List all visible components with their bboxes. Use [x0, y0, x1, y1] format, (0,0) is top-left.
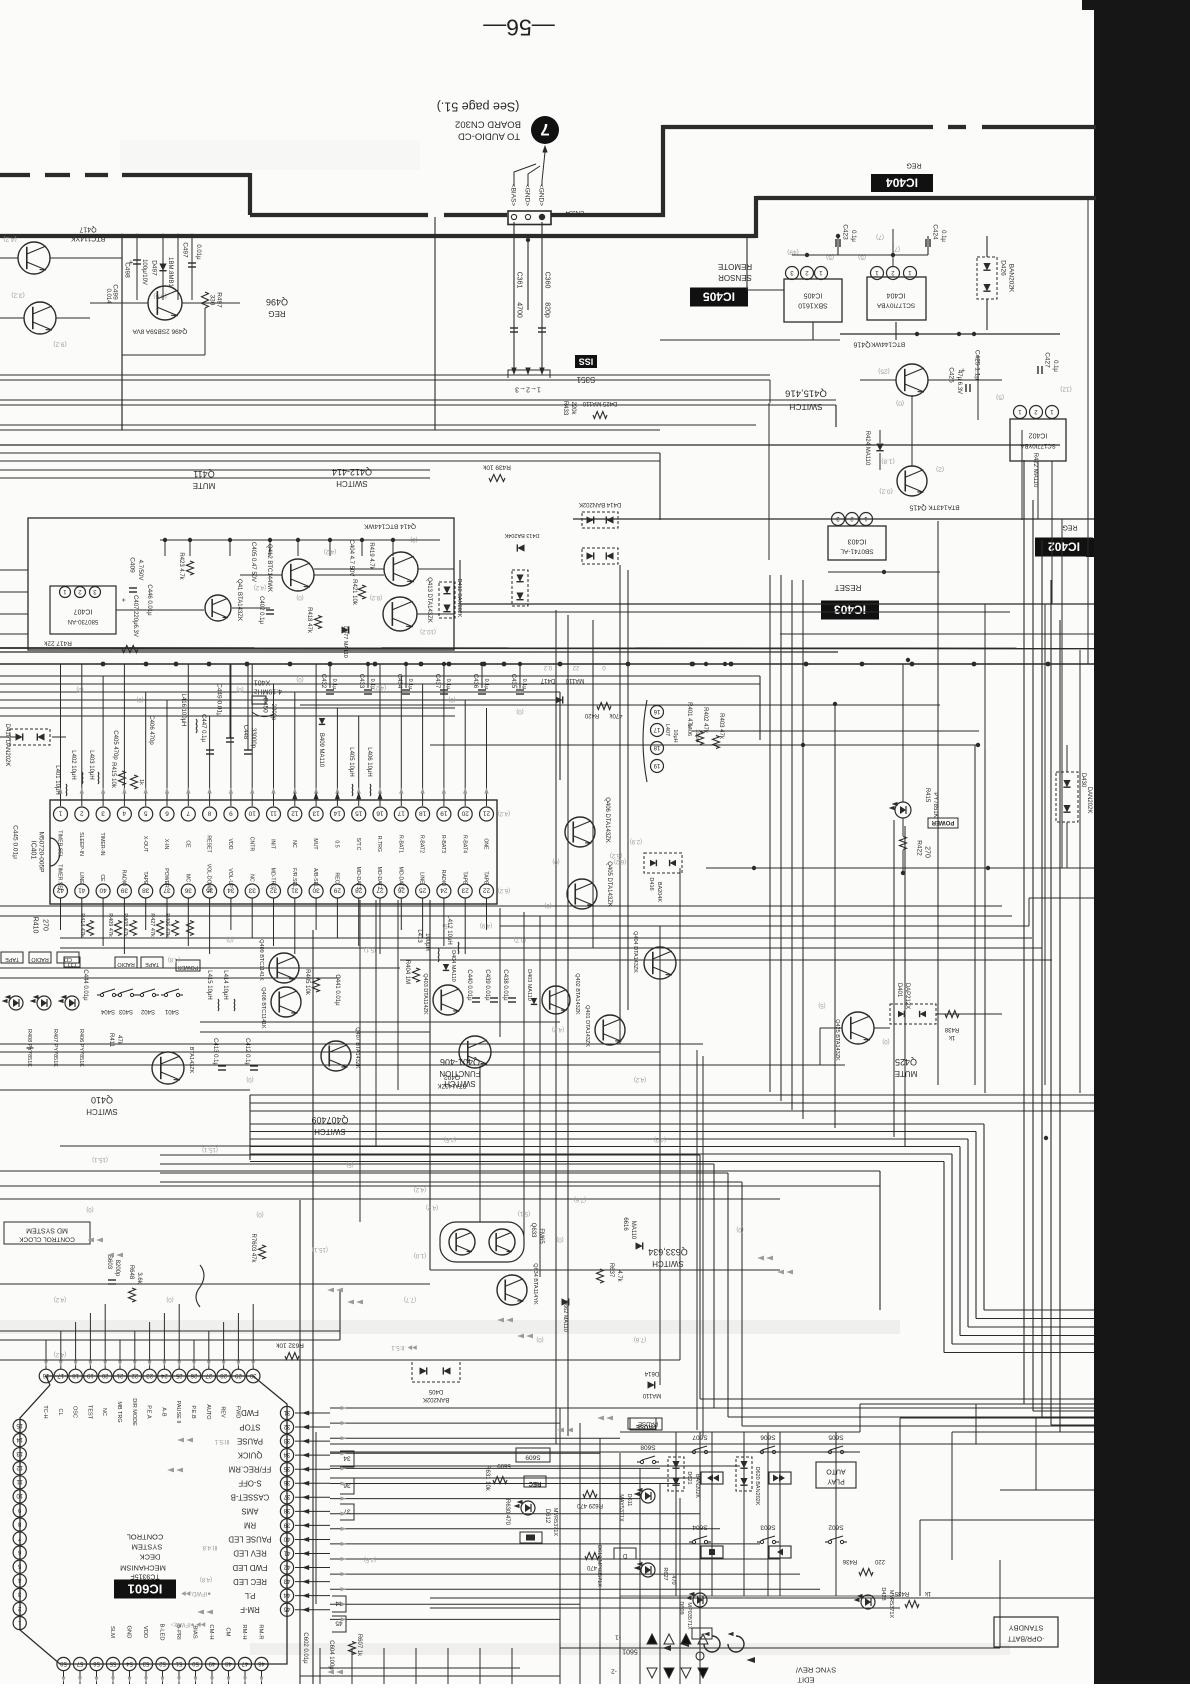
svg-text:C405 0.47 50V: C405 0.47 50V: [250, 542, 256, 582]
svg-text:R404 1M: R404 1M: [404, 960, 410, 984]
svg-text:25: 25: [419, 887, 427, 894]
svg-text:(4.2): (4.2): [54, 1351, 66, 1357]
svg-text:STOP: STOP: [239, 1422, 260, 1431]
svg-text:L406 10μH: L406 10μH: [366, 747, 372, 776]
svg-text:MUTE: MUTE: [193, 481, 216, 490]
svg-text:(0.2): (0.2): [879, 488, 892, 495]
svg-text:D413 BA204K: D413 BA204K: [504, 532, 539, 538]
svg-text:(15.1): (15.1): [92, 1156, 108, 1162]
svg-text:TIMER-IN: TIMER-IN: [99, 832, 105, 855]
svg-text:15: 15: [355, 810, 363, 817]
svg-text:C434: C434: [396, 674, 402, 689]
svg-text:(0): (0): [882, 1038, 889, 1044]
svg-text:(25): (25): [878, 368, 890, 375]
svg-text:470k: 470k: [608, 712, 622, 718]
svg-text:(5): (5): [996, 394, 1004, 401]
svg-text:7: 7: [540, 120, 549, 139]
svg-text:MD-DAT3: MD-DAT3: [355, 867, 361, 890]
svg-text:4.7k: 4.7k: [616, 1270, 622, 1282]
svg-text:D403 MA110: D403 MA110: [526, 969, 532, 1001]
svg-text:BTC114YK: BTC114YK: [70, 234, 105, 241]
svg-text:Q41 BTA143ZK: Q41 BTA143ZK: [236, 579, 242, 621]
svg-text:R421 10k: R421 10k: [351, 579, 357, 606]
svg-text:D611: D611: [626, 1494, 632, 1507]
svg-text:RM: RM: [244, 1521, 256, 1530]
svg-text:36: 36: [283, 1479, 290, 1485]
svg-text:FWD: FWD: [241, 1408, 259, 1417]
svg-text:(4.2): (4.2): [654, 1136, 666, 1142]
svg-text:47k: 47k: [116, 1035, 122, 1046]
svg-text:R407 PY7851K: R407 PY7851K: [52, 1029, 58, 1067]
svg-text:MC: MC: [184, 874, 190, 882]
svg-text:-2: -2: [611, 1668, 617, 1675]
svg-text:D477 MA110: D477 MA110: [342, 626, 348, 658]
svg-text:D662 MA110: D662 MA110: [562, 1300, 568, 1332]
svg-text:-1: -1: [615, 1634, 621, 1641]
svg-text:C413 0.1μ: C413 0.1μ: [212, 1038, 218, 1066]
svg-text:REG: REG: [906, 161, 921, 168]
svg-text:49: 49: [208, 1660, 215, 1666]
svg-text:25: 25: [175, 1372, 182, 1378]
svg-text:TAPE: TAPE: [5, 956, 19, 962]
svg-text:C406 470p: C406 470p: [148, 715, 154, 745]
svg-text:39: 39: [283, 1521, 290, 1527]
svg-text:R401 47k: R401 47k: [686, 702, 692, 729]
svg-text:RADIO: RADIO: [440, 870, 446, 886]
svg-text:CM-H: CM-H: [208, 1624, 214, 1639]
svg-text:L405 10μH: L405 10μH: [348, 747, 354, 776]
svg-text:R427 47k: R427 47k: [149, 913, 155, 937]
svg-text:(4.5): (4.5): [444, 1136, 456, 1142]
svg-text:33: 33: [248, 887, 256, 894]
svg-text:NC: NC: [248, 874, 254, 882]
svg-text:REV LED: REV LED: [233, 1549, 267, 1558]
svg-text:C427: C427: [1044, 352, 1051, 368]
svg-text:Q411: Q411: [193, 469, 214, 479]
svg-text:54: 54: [126, 1660, 133, 1666]
svg-text:RESET: RESET: [835, 583, 862, 592]
svg-text:X-OUT: X-OUT: [142, 836, 148, 853]
svg-text:C444 0.01μ: C444 0.01μ: [82, 969, 88, 1001]
svg-text:RADIO: RADIO: [117, 961, 135, 967]
svg-text:C437: C437: [434, 674, 440, 689]
svg-text:BIAS: BIAS: [191, 1625, 197, 1638]
svg-text:MD-DAT2: MD-DAT2: [376, 867, 382, 890]
svg-text:47: 47: [241, 1660, 248, 1666]
svg-text:FWD: FWD: [234, 1406, 240, 1419]
svg-text:X401: X401: [254, 678, 270, 685]
svg-text:REC: REC: [528, 1480, 541, 1486]
svg-text:Q407409: Q407409: [311, 1115, 348, 1125]
svg-text:D620 BAN202K: D620 BAN202K: [754, 1467, 760, 1506]
svg-text:R402 47k: R402 47k: [702, 707, 708, 734]
svg-text:C361: C361: [515, 272, 522, 289]
svg-text:SC177I0YBA: SC177I0YBA: [876, 302, 915, 309]
svg-text:R630 470: R630 470: [504, 1499, 510, 1526]
svg-text:P.E.A: P.E.A: [146, 1405, 152, 1419]
svg-text:R423 4.7k: R423 4.7k: [178, 552, 184, 580]
svg-text:4.7/50V: 4.7/50V: [137, 560, 143, 581]
svg-text:Q404 DTA143ZK: Q404 DTA143ZK: [632, 931, 638, 973]
svg-text:2200p: 2200p: [270, 704, 276, 721]
svg-text:CD: CD: [68, 961, 76, 967]
svg-text:21: 21: [483, 810, 491, 817]
svg-text:DIR MODE: DIR MODE: [131, 1398, 137, 1426]
svg-text:L416 100μH: L416 100μH: [180, 694, 186, 727]
svg-text:(0): (0): [256, 1211, 263, 1217]
svg-text:(0): (0): [166, 1296, 173, 1302]
svg-text:40: 40: [99, 887, 107, 894]
svg-text:TAPE: TAPE: [461, 871, 467, 885]
svg-text:Q416: Q416: [853, 340, 870, 347]
svg-text:TIMER.SEL: TIMER.SEL: [57, 830, 63, 857]
svg-text:BTA143TK: BTA143TK: [928, 504, 960, 511]
svg-text:220k: 220k: [570, 401, 576, 415]
svg-text:580730-AN: 580730-AN: [68, 618, 98, 624]
svg-text:19: 19: [653, 762, 660, 768]
svg-text:RESET: RESET: [206, 835, 212, 853]
svg-text:D425 MA110: D425 MA110: [582, 400, 617, 406]
svg-text:19: 19: [440, 810, 448, 817]
svg-text:R420: R420: [584, 712, 599, 718]
svg-text:11: 11: [270, 810, 277, 817]
svg-text:1k: 1k: [138, 779, 144, 785]
svg-text:D428: D428: [880, 1587, 886, 1600]
svg-text:0.014: 0.014: [105, 288, 111, 304]
svg-text:(0): (0): [226, 936, 233, 942]
svg-text:VDD: VDD: [142, 1626, 148, 1638]
svg-text:SLM: SLM: [109, 1626, 115, 1638]
svg-text:1k: 1k: [948, 1034, 955, 1040]
svg-text:20: 20: [461, 810, 469, 817]
svg-text:(4.2): (4.2): [498, 810, 510, 816]
svg-text:MUT: MUT: [312, 838, 318, 850]
svg-text:40: 40: [283, 1535, 290, 1541]
svg-text:REC: REC: [334, 873, 340, 884]
svg-text:D614: D614: [644, 1370, 659, 1376]
svg-text:X-IN: X-IN: [163, 839, 169, 850]
svg-text:REG: REG: [1062, 523, 1077, 530]
svg-text:D412 BAN202K: D412 BAN202K: [456, 579, 462, 618]
svg-text:(10.2): (10.2): [420, 628, 436, 634]
svg-text:MUTE: MUTE: [895, 1069, 918, 1078]
svg-text:(0): (0): [736, 1226, 743, 1232]
svg-text:C409: C409: [129, 557, 136, 573]
svg-text:AMS: AMS: [242, 1507, 259, 1516]
svg-text:2: 2: [80, 810, 84, 817]
svg-text:C438 0.01μ: C438 0.01μ: [502, 969, 508, 1001]
svg-text:C441 0.01μ: C441 0.01μ: [334, 974, 340, 1006]
svg-text:38: 38: [283, 1507, 290, 1513]
svg-text:41: 41: [283, 1549, 290, 1555]
svg-text:D610 MP03571X: D610 MP03571X: [596, 1545, 602, 1587]
svg-text:27: 27: [205, 1372, 212, 1378]
svg-text:C424: C424: [932, 224, 939, 240]
svg-text:8: 8: [207, 810, 211, 817]
svg-text:16: 16: [653, 708, 660, 714]
svg-text:A/B-SEL: A/B-SEL: [312, 868, 318, 888]
svg-text:EDIT: EDIT: [797, 1675, 815, 1684]
svg-text:R627: R627: [662, 1567, 668, 1580]
svg-text:CASSET-B: CASSET-B: [231, 1492, 270, 1501]
svg-text:R648: R648: [128, 1265, 134, 1280]
svg-text:D416: D416: [648, 877, 654, 890]
svg-text:B-PRI: B-PRI: [175, 1624, 181, 1640]
svg-text:SLEEP-IN: SLEEP-IN: [78, 832, 84, 856]
svg-text:D414 BAN202K: D414 BAN202K: [579, 501, 621, 507]
svg-text:0.1μ: 0.1μ: [483, 679, 489, 690]
svg-text:ONE: ONE: [483, 838, 489, 850]
svg-text:SWITCH: SWITCH: [444, 1079, 476, 1088]
svg-text:D404 MA110: D404 MA110: [450, 950, 456, 982]
svg-text:S603: S603: [106, 1255, 112, 1270]
svg-text:AUTO: AUTO: [205, 1404, 211, 1420]
svg-text:24: 24: [160, 1372, 167, 1378]
svg-text:(4.2): (4.2): [414, 1186, 426, 1192]
svg-text:BAN202K: BAN202K: [423, 1396, 449, 1402]
svg-text:44: 44: [283, 1591, 290, 1597]
svg-text:R.TRG: R.TRG: [376, 836, 382, 852]
svg-text:43: 43: [283, 1577, 290, 1583]
svg-text:LINE: LINE: [78, 872, 84, 884]
svg-text:24: 24: [440, 887, 448, 894]
svg-text:(5): (5): [346, 1161, 353, 1167]
svg-text:—56—: —56—: [483, 15, 555, 41]
svg-text:42: 42: [283, 1563, 290, 1569]
svg-text:6: 6: [165, 810, 169, 817]
svg-text:●IFWD.▶▶: ●IFWD.▶▶: [181, 1590, 211, 1596]
svg-text:BAN202K: BAN202K: [1008, 264, 1015, 293]
svg-text:MD-DAT1: MD-DAT1: [397, 867, 403, 890]
svg-text:(6.2): (6.2): [610, 852, 622, 858]
svg-text:C423: C423: [842, 224, 849, 240]
svg-text:(0): (0): [296, 594, 303, 600]
svg-text:29: 29: [234, 1372, 241, 1378]
svg-text:19: 19: [86, 1372, 93, 1378]
svg-text:IC402: IC402: [1029, 431, 1048, 438]
svg-text:D426: D426: [1000, 260, 1007, 276]
svg-text:R436: R436: [842, 1558, 857, 1564]
svg-text:R435: R435: [894, 1590, 909, 1596]
svg-text:CNTR: CNTR: [248, 837, 254, 852]
svg-text:RADIO: RADIO: [121, 870, 127, 886]
svg-text:C448: C448: [242, 725, 248, 740]
svg-text:▶▶ .Ⅱ:5.1: ▶▶ .Ⅱ:5.1: [391, 1344, 417, 1350]
svg-text:(0): (0): [448, 696, 455, 702]
svg-text:C426: C426: [948, 367, 955, 383]
svg-text:18: 18: [653, 744, 660, 750]
svg-text:(0): (0): [536, 1336, 543, 1342]
svg-text:S608: S608: [640, 1444, 656, 1451]
svg-text:36: 36: [184, 887, 192, 894]
svg-text:D612: D612: [544, 1509, 550, 1524]
svg-text:R629 470: R629 470: [576, 1502, 603, 1508]
svg-text:15: 15: [16, 1422, 23, 1428]
svg-text:CONTROL CLOCK: CONTROL CLOCK: [18, 1236, 74, 1243]
svg-text:NC: NC: [101, 1408, 107, 1416]
svg-text:P.L: P.L: [244, 1591, 255, 1600]
svg-text:CL: CL: [57, 1408, 63, 1415]
svg-text:(0): (0): [516, 708, 523, 714]
svg-text:IC601: IC601: [128, 1581, 163, 1596]
svg-text:R418 47k: R418 47k: [306, 607, 312, 634]
svg-text:4: 4: [122, 810, 126, 817]
svg-text:Q409 BTC1141K: Q409 BTC1141K: [258, 939, 264, 981]
svg-text:C439 0.01μ: C439 0.01μ: [484, 969, 490, 1001]
svg-text:FF/REC.RM: FF/REC.RM: [229, 1464, 271, 1473]
svg-text:L414 10μH: L414 10μH: [222, 970, 228, 999]
svg-text:C449 0.01μ: C449 0.01μ: [216, 683, 223, 717]
svg-text:5609: 5609: [497, 1462, 511, 1468]
svg-text:52: 52: [159, 1660, 166, 1666]
svg-text:C499: C499: [112, 284, 119, 300]
svg-text:(4.2): (4.2): [54, 1296, 66, 1302]
svg-text:P.E.B: P.E.B: [190, 1405, 196, 1419]
svg-text:(7.7): (7.7): [404, 1296, 416, 1302]
svg-text:MAY5371X: MAY5371X: [618, 1494, 624, 1522]
svg-text:23: 23: [146, 1372, 153, 1378]
svg-text:D410 DAN202K: D410 DAN202K: [4, 724, 10, 767]
svg-text:Q401-406: Q401-406: [440, 1057, 480, 1067]
svg-text:Q425: Q425: [895, 1057, 917, 1067]
svg-text:IC403: IC403: [848, 537, 867, 544]
svg-text:0.1μ: 0.1μ: [331, 679, 337, 690]
svg-text:CE: CE: [99, 874, 105, 882]
svg-text:(6.2): (6.2): [498, 887, 510, 893]
svg-text:4700: 4700: [515, 302, 522, 318]
svg-text:FWD LED: FWD LED: [232, 1563, 267, 1572]
svg-text:L412 10μH: L412 10μH: [446, 915, 452, 944]
svg-text:M50720-005P: M50720-005P: [38, 832, 45, 873]
svg-text:(7): (7): [876, 234, 884, 241]
svg-text:MB TRG: MB TRG: [116, 1401, 122, 1422]
svg-text:48: 48: [225, 1660, 232, 1666]
svg-text:53: 53: [142, 1660, 149, 1666]
svg-text:L403 10μH: L403 10μH: [88, 750, 94, 779]
svg-text:21: 21: [116, 1372, 123, 1378]
svg-text:POWER: POWER: [178, 964, 199, 970]
svg-text:MD SYSTEM: MD SYSTEM: [26, 1226, 68, 1233]
svg-text:ⅡI:4.8: ⅡI:4.8: [202, 1544, 217, 1550]
svg-text:330: 330: [209, 295, 216, 306]
svg-text:R415 10k: R415 10k: [110, 762, 116, 789]
svg-text:L407: L407: [664, 724, 670, 736]
svg-text:STANDBY: STANDBY: [1009, 1623, 1044, 1632]
svg-text:Q496 2SB59A 8VA: Q496 2SB59A 8VA: [132, 328, 187, 335]
svg-text:16: 16: [42, 1372, 49, 1378]
svg-text:OSC: OSC: [72, 1406, 78, 1418]
svg-text:(8.2): (8.2): [370, 594, 382, 600]
svg-text:IC401: IC401: [29, 841, 36, 860]
svg-text:PAUSE: PAUSE: [636, 1423, 656, 1429]
svg-text:ⅡI:5.1: ⅡI:5.1: [214, 1438, 229, 1444]
svg-text:23: 23: [461, 887, 469, 894]
svg-text:C402 0.1μ: C402 0.1μ: [258, 596, 264, 624]
svg-text:58: 58: [60, 1660, 67, 1666]
svg-text:+: +: [119, 598, 126, 602]
svg-text:D401: D401: [896, 983, 902, 998]
svg-text:FUNCTION: FUNCTION: [439, 1069, 481, 1078]
svg-text:0.1μ: 0.1μ: [445, 679, 451, 690]
svg-text:28: 28: [220, 1372, 227, 1378]
svg-text:MA110: MA110: [565, 677, 584, 683]
svg-text:SWITCH: SWITCH: [336, 479, 368, 488]
svg-text:Q413 DTA143ZK: Q413 DTA143ZK: [426, 577, 432, 623]
svg-text:0.1μ: 0.1μ: [850, 230, 856, 242]
svg-text:RM-R: RM-R: [257, 1624, 263, 1639]
svg-text:Q408 BTC1141K: Q408 BTC1141K: [260, 987, 266, 1029]
svg-text:5601: 5601: [622, 1647, 638, 1654]
svg-text:C446 0.01μ: C446 0.01μ: [146, 584, 152, 616]
svg-text:22: 22: [572, 664, 579, 670]
svg-text:TC-H: TC-H: [42, 1405, 48, 1418]
svg-text:8200p: 8200p: [114, 1260, 120, 1277]
svg-text:IC407: IC407: [74, 607, 93, 614]
svg-text:Q403 DTA114ZK: Q403 DTA114ZK: [422, 973, 428, 1015]
svg-text:Q402 BTA143ZK: Q402 BTA143ZK: [574, 973, 580, 1015]
svg-text:R419 4.7k: R419 4.7k: [368, 542, 374, 570]
svg-text:C412 0.1μ: C412 0.1μ: [244, 1038, 250, 1066]
svg-text:41: 41: [78, 887, 86, 894]
svg-text:IC405: IC405: [804, 291, 823, 298]
svg-text:(0): (0): [552, 858, 559, 864]
svg-text:TAPE: TAPE: [483, 871, 489, 885]
svg-text:Q415: Q415: [909, 503, 926, 510]
svg-text:BTC144WK: BTC144WK: [870, 341, 905, 348]
svg-text:CONTROL: CONTROL: [127, 1532, 164, 1541]
svg-text:51: 51: [175, 1660, 182, 1666]
svg-text:39: 39: [120, 887, 128, 894]
svg-text:C497: C497: [182, 242, 189, 258]
svg-text:D430: D430: [1080, 773, 1086, 788]
svg-text:TIMER.SEL: TIMER.SEL: [57, 864, 63, 891]
svg-text:(0): (0): [296, 676, 303, 682]
svg-text:(4.2): (4.2): [374, 684, 386, 690]
svg-text:(0): (0): [556, 1236, 563, 1242]
svg-text:(5): (5): [442, 922, 449, 928]
svg-text:(0): (0): [136, 696, 143, 702]
svg-text:100μH: 100μH: [424, 933, 430, 951]
svg-text:IC403: IC403: [834, 603, 866, 617]
svg-text:R497: R497: [216, 292, 223, 308]
svg-text:Q410: Q410: [91, 1095, 113, 1105]
svg-text:IC402: IC402: [1048, 540, 1080, 554]
svg-text:C405 470p: C405 470p: [112, 730, 118, 760]
svg-text:MP03571X: MP03571X: [686, 1602, 692, 1630]
svg-text:270: 270: [41, 919, 48, 931]
svg-text:30: 30: [249, 1372, 256, 1378]
svg-text:C440 0.01μ: C440 0.01μ: [466, 969, 472, 1001]
svg-text:INIT: INIT: [270, 839, 276, 850]
svg-text:L413: L413: [416, 929, 422, 943]
svg-text:(5): (5): [818, 1002, 825, 1008]
svg-text:POWER: POWER: [931, 819, 954, 825]
svg-text:Q425 BTA143ZK: Q425 BTA143ZK: [834, 1019, 840, 1061]
svg-text:MECHANISM: MECHANISM: [120, 1563, 166, 1572]
svg-text:MVR5371X: MVR5371X: [888, 1590, 894, 1618]
svg-text:7: 7: [186, 810, 190, 817]
svg-text:34: 34: [283, 1451, 290, 1457]
svg-text:VDD: VDD: [227, 839, 233, 850]
svg-text:18: 18: [419, 810, 427, 817]
svg-text:S/T.C: S/T.C: [355, 838, 361, 851]
svg-text:IC404: IC404: [886, 176, 918, 190]
svg-text:R414 47k: R414 47k: [79, 913, 85, 937]
svg-text:(0): (0): [76, 686, 83, 692]
svg-text:S404: S404: [100, 1008, 115, 1014]
svg-text:R422 MA110: R422 MA110: [1032, 453, 1038, 488]
svg-text:BOARD CN302: BOARD CN302: [455, 119, 521, 130]
